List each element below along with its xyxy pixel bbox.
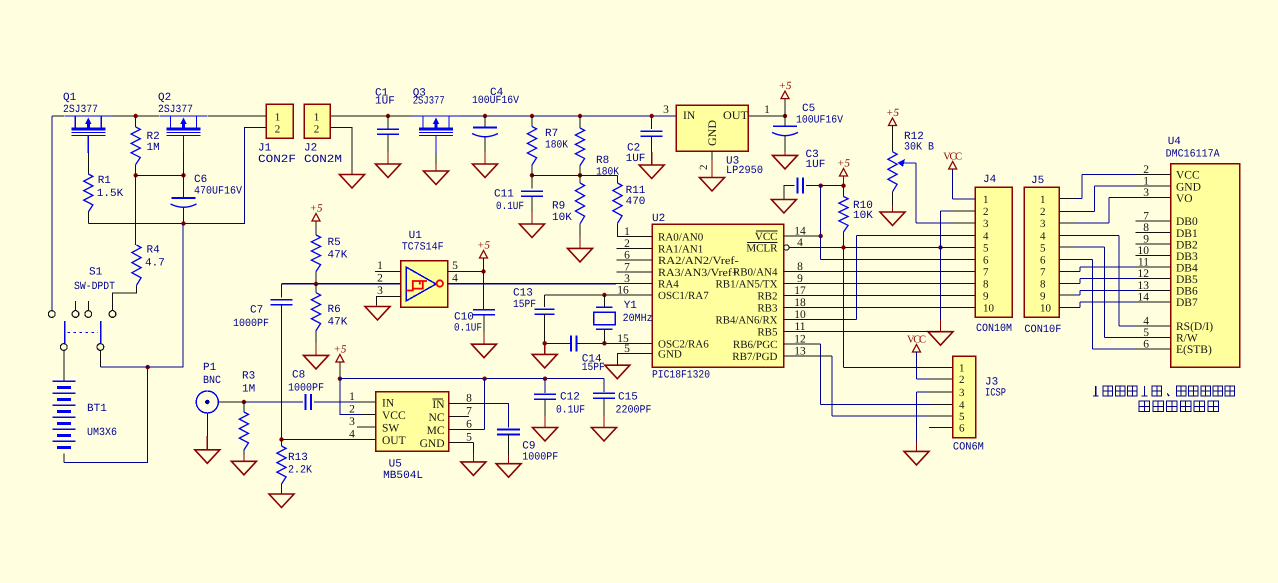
svg-text:OUT: OUT (723, 110, 748, 122)
svg-text:DB4: DB4 (1176, 262, 1198, 274)
svg-text:1.5K: 1.5K (97, 188, 124, 200)
svg-text:4: 4 (983, 231, 989, 243)
svg-text:SW-DPDT: SW-DPDT (74, 281, 115, 293)
svg-text:180K: 180K (596, 167, 619, 179)
svg-text:5: 5 (452, 260, 458, 272)
svg-text:C13: C13 (513, 288, 533, 300)
svg-text:R6: R6 (328, 304, 341, 316)
svg-text:2.2K: 2.2K (288, 465, 312, 477)
svg-text:1M: 1M (242, 384, 255, 396)
svg-text:ICSP: ICSP (985, 388, 1006, 400)
svg-text:180K: 180K (545, 140, 568, 152)
svg-text:1000PF: 1000PF (288, 383, 324, 395)
svg-text:R3: R3 (242, 371, 255, 383)
svg-text:RB2: RB2 (757, 291, 777, 303)
svg-text:C6: C6 (194, 174, 207, 186)
svg-text:2: 2 (959, 374, 965, 386)
svg-text:C15: C15 (618, 392, 638, 404)
svg-text:8: 8 (1040, 278, 1046, 290)
svg-text:5: 5 (959, 411, 965, 423)
svg-text:3: 3 (983, 218, 989, 230)
svg-text:3: 3 (377, 285, 383, 297)
svg-text:RA3/AN3/Vref+: RA3/AN3/Vref+ (658, 267, 739, 279)
svg-text:DB7: DB7 (1176, 297, 1198, 309)
svg-text:6: 6 (1143, 339, 1149, 351)
svg-text:U4: U4 (1168, 136, 1182, 148)
svg-text:C5: C5 (802, 103, 815, 115)
svg-text:C12: C12 (560, 392, 580, 404)
svg-text:6: 6 (983, 254, 989, 266)
svg-text:10K: 10K (853, 210, 873, 222)
svg-text:IN: IN (382, 397, 395, 409)
svg-text:DB2: DB2 (1176, 239, 1198, 251)
svg-text:J4: J4 (983, 174, 997, 186)
svg-text:3: 3 (663, 104, 669, 116)
svg-text:U1: U1 (409, 230, 423, 242)
svg-text:R8: R8 (596, 155, 609, 167)
svg-text:VCC: VCC (1176, 170, 1200, 182)
svg-text:1: 1 (1040, 194, 1046, 206)
svg-text:+5: +5 (310, 203, 323, 215)
svg-text:BNC: BNC (203, 375, 221, 387)
svg-text:3: 3 (1143, 187, 1149, 199)
svg-text:1000PF: 1000PF (522, 452, 558, 464)
svg-text:10: 10 (1138, 245, 1150, 257)
svg-text:20MHz: 20MHz (623, 313, 653, 325)
svg-text:U2: U2 (652, 213, 665, 225)
svg-text:+5: +5 (477, 240, 490, 252)
svg-text:7: 7 (466, 406, 472, 418)
svg-text:DB5: DB5 (1176, 274, 1198, 286)
svg-text:VCC: VCC (755, 231, 778, 243)
svg-text:4: 4 (959, 399, 965, 411)
svg-text:OSC1/RA7: OSC1/RA7 (658, 290, 709, 302)
svg-text:+5: +5 (333, 344, 346, 356)
svg-text:10: 10 (1040, 303, 1052, 315)
svg-text:1: 1 (1143, 176, 1149, 188)
svg-text:6: 6 (466, 419, 472, 431)
svg-text:47K: 47K (328, 317, 348, 329)
svg-text:4.7: 4.7 (145, 258, 165, 270)
svg-text:S1: S1 (89, 267, 103, 279)
svg-text:R5: R5 (328, 237, 341, 249)
svg-text:CON2M: CON2M (304, 154, 342, 166)
svg-text:RB6/PGC: RB6/PGC (733, 339, 778, 351)
svg-text:R4: R4 (147, 245, 161, 257)
svg-text:R13: R13 (288, 452, 308, 464)
svg-text:CON10F: CON10F (1024, 324, 1061, 336)
svg-text:15PF: 15PF (582, 362, 605, 374)
svg-text:MCLR: MCLR (746, 243, 778, 255)
svg-text:GND: GND (707, 120, 719, 146)
svg-text:1UF: 1UF (806, 159, 826, 171)
svg-text:C11: C11 (494, 189, 514, 201)
svg-text:R9: R9 (552, 201, 565, 213)
svg-text:GND: GND (1176, 181, 1201, 193)
svg-text:2: 2 (275, 124, 281, 136)
svg-text:0.1UF: 0.1UF (496, 201, 524, 213)
svg-text:BT1: BT1 (87, 403, 107, 415)
svg-text:3: 3 (959, 387, 965, 399)
svg-text:CON6M: CON6M (953, 442, 984, 454)
svg-text:RB0/AN4: RB0/AN4 (733, 266, 778, 278)
svg-text:2SJ377: 2SJ377 (63, 104, 98, 116)
svg-text:9: 9 (983, 291, 989, 303)
svg-text:+5: +5 (779, 80, 792, 92)
svg-text:1: 1 (275, 112, 281, 124)
svg-text:0.1UF: 0.1UF (454, 323, 482, 335)
svg-text:DB6: DB6 (1176, 285, 1198, 297)
svg-text:OUT: OUT (382, 435, 406, 447)
svg-text:1: 1 (959, 362, 965, 374)
svg-text:RB3: RB3 (757, 303, 778, 315)
svg-text:10K: 10K (552, 212, 572, 224)
svg-text:47K: 47K (328, 250, 348, 262)
svg-text:CON10M: CON10M (976, 323, 1012, 335)
svg-text:VCC: VCC (382, 410, 406, 422)
svg-text:SW: SW (382, 422, 399, 434)
svg-text:UM3X6: UM3X6 (87, 427, 117, 439)
svg-text:100UF16V: 100UF16V (796, 114, 843, 126)
svg-text:470UF16V: 470UF16V (194, 186, 242, 198)
svg-text:VCC: VCC (943, 152, 962, 163)
svg-text:GND: GND (658, 348, 682, 360)
svg-text:CON2F: CON2F (258, 154, 296, 166)
svg-text:IN: IN (432, 399, 445, 411)
svg-text:3: 3 (349, 416, 355, 428)
svg-text:1: 1 (764, 104, 770, 116)
svg-text:GND: GND (420, 438, 445, 450)
svg-text:1: 1 (624, 226, 630, 238)
svg-text:IN: IN (683, 110, 696, 122)
svg-text:1UF: 1UF (626, 153, 646, 165)
svg-text:8: 8 (983, 278, 989, 290)
svg-text:11: 11 (1138, 257, 1149, 269)
svg-text:10: 10 (983, 303, 995, 315)
svg-text:RB1/AN5/TX: RB1/AN5/TX (716, 278, 778, 290)
svg-text:4: 4 (1040, 231, 1046, 243)
svg-text:5: 5 (1143, 327, 1149, 339)
svg-text:2SJ377: 2SJ377 (158, 104, 193, 116)
svg-text:5: 5 (1040, 243, 1046, 255)
svg-text:C7: C7 (250, 305, 263, 317)
svg-text:RA0/AN0: RA0/AN0 (658, 232, 704, 244)
svg-text:RA4: RA4 (658, 279, 679, 291)
svg-text:+5: +5 (886, 107, 899, 119)
svg-text:2: 2 (1143, 164, 1149, 176)
svg-text:9: 9 (1040, 291, 1046, 303)
svg-text:2: 2 (1040, 206, 1046, 218)
svg-text:RB4/AN6/RX: RB4/AN6/RX (716, 315, 778, 327)
svg-text:5: 5 (466, 432, 472, 444)
svg-text:7: 7 (983, 266, 989, 278)
svg-text:R/W: R/W (1176, 333, 1198, 345)
svg-text:2: 2 (314, 124, 320, 136)
svg-text:7: 7 (1143, 211, 1149, 223)
svg-text:12: 12 (1138, 268, 1150, 280)
svg-text:4: 4 (452, 273, 458, 285)
svg-text:2: 2 (698, 165, 710, 171)
svg-text:R7: R7 (545, 128, 558, 140)
svg-text:1: 1 (983, 194, 989, 206)
svg-text:U5: U5 (389, 459, 402, 471)
svg-text:Y1: Y1 (624, 300, 638, 312)
svg-text:1: 1 (349, 391, 355, 403)
svg-text:RA2/AN2/Vref-: RA2/AN2/Vref- (658, 255, 739, 267)
svg-text:J1: J1 (258, 143, 272, 155)
svg-text:6: 6 (959, 423, 965, 435)
svg-text:RB7/PGD: RB7/PGD (732, 351, 777, 363)
svg-text:RB5: RB5 (757, 327, 778, 339)
svg-text:30K B: 30K B (904, 141, 934, 153)
svg-text:Q2: Q2 (158, 92, 171, 104)
svg-text:PIC18F1320: PIC18F1320 (652, 370, 710, 382)
svg-text:RA1/AN1: RA1/AN1 (658, 243, 703, 255)
svg-text:2: 2 (377, 273, 383, 285)
svg-text:E(STB): E(STB) (1176, 344, 1212, 356)
svg-text:DB1: DB1 (1176, 228, 1198, 240)
svg-text:TC7S14F: TC7S14F (402, 242, 444, 254)
svg-text:1000PF: 1000PF (233, 318, 269, 330)
svg-text:Q1: Q1 (63, 92, 77, 104)
svg-text:4: 4 (349, 429, 355, 441)
svg-text:4: 4 (1143, 316, 1149, 328)
svg-text:R1: R1 (98, 175, 112, 187)
svg-text:VO: VO (1176, 193, 1193, 205)
svg-text:8: 8 (466, 393, 472, 405)
svg-text:1: 1 (377, 260, 383, 272)
svg-text:J2: J2 (304, 143, 317, 155)
svg-text:NC: NC (429, 412, 445, 424)
svg-text:0.1UF: 0.1UF (556, 405, 585, 417)
svg-text:MC: MC (427, 425, 445, 437)
svg-text:J5: J5 (1031, 175, 1044, 187)
svg-text:VCC: VCC (907, 335, 926, 346)
svg-text:8: 8 (1143, 222, 1149, 234)
svg-text:1UF: 1UF (375, 96, 395, 108)
svg-text:9: 9 (1143, 234, 1149, 246)
svg-text:DB3: DB3 (1176, 251, 1198, 263)
svg-text:7: 7 (1040, 266, 1046, 278)
svg-text:DB0: DB0 (1176, 216, 1198, 228)
svg-text:LP2950: LP2950 (726, 165, 763, 177)
svg-text:5: 5 (983, 243, 989, 255)
svg-text:6: 6 (1040, 254, 1046, 266)
svg-text:14: 14 (1138, 291, 1150, 303)
svg-text:2: 2 (983, 206, 989, 218)
svg-text:100UF16V: 100UF16V (472, 95, 519, 107)
svg-text:2200PF: 2200PF (616, 405, 652, 417)
svg-text:13: 13 (1138, 280, 1150, 292)
svg-text:2SJ377: 2SJ377 (413, 96, 445, 108)
svg-text:15PF: 15PF (513, 299, 536, 311)
svg-text:MB504L: MB504L (383, 470, 423, 482)
svg-text:2: 2 (349, 404, 355, 416)
svg-text:+5: +5 (837, 158, 850, 170)
svg-text:1: 1 (314, 112, 320, 124)
svg-text:RS(D/I): RS(D/I) (1176, 321, 1213, 333)
svg-text:1M: 1M (147, 142, 160, 154)
svg-text:470: 470 (626, 196, 646, 208)
svg-text:3: 3 (1040, 218, 1046, 230)
svg-text:DMC16117A: DMC16117A (1166, 149, 1220, 161)
svg-text:C9: C9 (522, 440, 535, 452)
svg-text:C8: C8 (292, 370, 305, 382)
svg-text:P1: P1 (203, 362, 217, 374)
